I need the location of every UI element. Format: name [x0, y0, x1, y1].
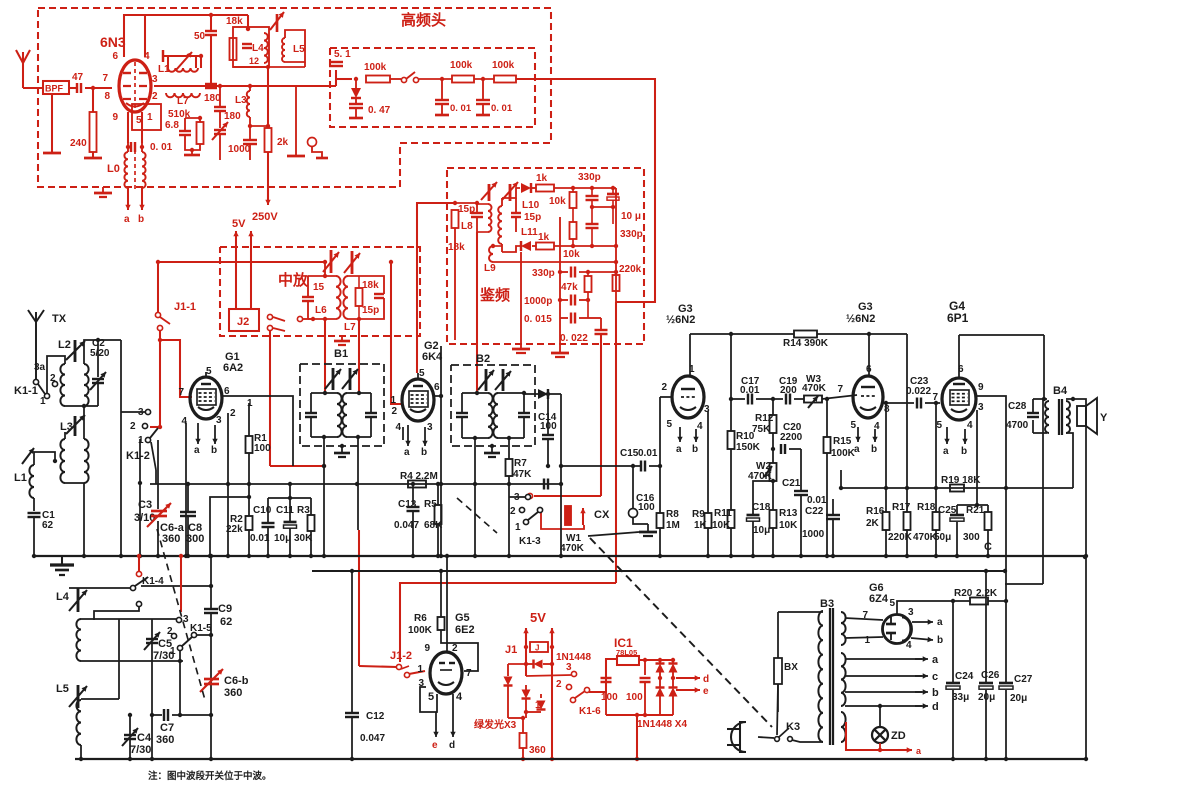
resistor R7 47K	[506, 459, 513, 476]
wire disc to B2	[476, 232, 478, 394]
node 2k top	[267, 67, 269, 126]
wire 360V col	[525, 712, 527, 718]
svg-text:5: 5	[666, 419, 672, 430]
svg-text:K1-1: K1-1	[14, 385, 38, 397]
svg-text:1N1448 X4: 1N1448 X4	[637, 719, 687, 730]
svg-text:C18: C18	[752, 502, 771, 513]
svg-text:100k: 100k	[450, 60, 473, 71]
wire grid mid	[154, 85, 336, 87]
wire AVC line	[150, 483, 561, 485]
wire plate top right	[144, 15, 146, 57]
ground IF	[341, 336, 343, 340]
wire G6 taps	[845, 618, 883, 620]
svg-text:0. 47: 0. 47	[368, 105, 391, 116]
wire det plate	[417, 203, 455, 373]
tube G6 internals	[886, 623, 896, 626]
terminal G1 a	[197, 423, 199, 444]
resistor R10 150K	[728, 431, 735, 449]
svg-text:100: 100	[626, 692, 643, 703]
discriminator dashed box	[447, 168, 644, 344]
svg-text:10μ: 10μ	[274, 533, 291, 544]
svg-text:0. 01: 0. 01	[450, 103, 472, 114]
wire red k15	[180, 556, 182, 612]
resistor R19 18K	[950, 485, 964, 492]
ground cath	[102, 187, 104, 192]
svg-text:6N3: 6N3	[100, 34, 126, 50]
svg-text:C21: C21	[782, 478, 801, 489]
svg-text:BX: BX	[784, 662, 798, 673]
svg-text:180: 180	[224, 111, 241, 122]
ground disc2	[551, 352, 569, 355]
wire J1-1 up	[157, 262, 159, 313]
svg-text:47: 47	[72, 72, 84, 83]
wire heater c	[845, 675, 922, 677]
wire B2R R7	[508, 438, 510, 459]
svg-text:J: J	[535, 644, 539, 653]
wire J1-1 to K12	[150, 426, 160, 428]
svg-text:e: e	[703, 686, 709, 697]
wire to R 240	[92, 88, 94, 112]
wire L3 top	[83, 406, 85, 439]
wire grid coupling	[731, 398, 745, 400]
wire L9 out	[493, 261, 616, 263]
wire antenna to BPF	[23, 87, 43, 89]
tube G4 internals	[950, 390, 969, 405]
wire C9 col	[210, 556, 212, 609]
svg-text:a: a	[124, 214, 130, 225]
wire B+ col 907	[906, 334, 908, 512]
terminal G3a a	[679, 427, 681, 442]
svg-text:C24: C24	[955, 671, 974, 682]
wire L2 bots	[65, 405, 98, 407]
svg-text:TX: TX	[52, 313, 67, 325]
transformer det mid	[498, 206, 502, 244]
block J2	[229, 309, 259, 331]
bus second	[312, 570, 1005, 572]
wire G4 cath	[976, 410, 978, 505]
svg-text:C6-b: C6-b	[224, 675, 249, 687]
wire L4L5 bus	[247, 15, 249, 27]
pin 9 box	[132, 104, 161, 130]
wire L4 top	[81, 618, 119, 620]
wire k13 diag	[457, 498, 497, 533]
switch S afc	[401, 77, 406, 82]
terminal G3b a	[857, 427, 859, 442]
svg-text:62: 62	[220, 616, 232, 628]
svg-text:a: a	[937, 617, 943, 628]
svg-text:5: 5	[206, 366, 212, 377]
resistor R9 1k	[705, 513, 712, 528]
svg-text:0.022: 0.022	[906, 386, 931, 397]
tank B1 right	[370, 393, 372, 412]
wire plug K3	[758, 737, 774, 738]
svg-text:C13: C13	[398, 499, 417, 510]
bus main ground	[33, 555, 1085, 557]
svg-text:100K: 100K	[831, 448, 856, 459]
filter BPF	[43, 81, 69, 94]
wire B2L down	[474, 438, 476, 556]
svg-text:b: b	[871, 444, 877, 455]
wire G3b k	[881, 402, 886, 404]
svg-text:J2: J2	[237, 316, 249, 328]
svg-text:1K: 1K	[694, 520, 708, 531]
node L1 right	[199, 54, 203, 58]
capacitor 6.8	[179, 130, 191, 132]
svg-text:C9: C9	[218, 603, 232, 615]
svg-text:10 μ: 10 μ	[621, 211, 641, 222]
svg-text:b: b	[961, 446, 967, 457]
svg-text:L9: L9	[484, 263, 496, 274]
wire IF B+ rail	[158, 261, 325, 263]
led X3 b	[525, 676, 527, 690]
svg-text:1: 1	[147, 112, 153, 123]
capacitor C1 62	[33, 498, 35, 511]
svg-text:4: 4	[697, 421, 703, 432]
svg-text:2: 2	[452, 643, 458, 654]
capacitor 0.01 a	[441, 79, 443, 99]
svg-text:a: a	[404, 447, 410, 458]
resistor R18 470K	[933, 512, 940, 530]
svg-text:R16: R16	[866, 506, 885, 517]
svg-text:C3: C3	[138, 499, 152, 511]
tank L6	[307, 276, 309, 296]
capacitor C6-b red	[204, 678, 219, 681]
svg-text:C: C	[984, 541, 992, 553]
svg-text:240: 240	[70, 138, 87, 149]
svg-text:4: 4	[906, 640, 912, 651]
wire disc down2	[559, 318, 561, 352]
terminal G2 b	[424, 427, 426, 446]
trimmer B1 b	[349, 368, 352, 390]
svg-text:d: d	[703, 674, 709, 685]
box G5 k	[420, 687, 437, 712]
node 50/L7	[209, 84, 213, 88]
wire B1R down	[357, 437, 359, 530]
wire speaker down	[1085, 426, 1087, 759]
svg-text:100: 100	[638, 502, 655, 513]
svg-text:8: 8	[884, 404, 890, 415]
svg-text:C26: C26	[981, 670, 1000, 681]
terminal 250V	[267, 185, 269, 205]
wire 2k down 250V	[267, 152, 269, 200]
svg-text:360: 360	[529, 745, 546, 756]
wire K12 3	[121, 411, 145, 413]
svg-text:7: 7	[102, 73, 108, 84]
svg-text:½6N2: ½6N2	[846, 313, 875, 325]
svg-text:2: 2	[130, 421, 136, 432]
wire C7 line	[151, 661, 153, 715]
svg-text:330p: 330p	[578, 172, 601, 183]
svg-text:G3: G3	[858, 301, 873, 313]
svg-text:R7: R7	[514, 458, 527, 469]
svg-text:5: 5	[419, 368, 425, 379]
svg-text:R8: R8	[666, 509, 679, 520]
resistor R17 220K	[904, 512, 911, 530]
wire B4 drop	[1043, 335, 1045, 399]
inductor L4r	[264, 33, 268, 63]
terminal e psu	[676, 689, 700, 691]
wire bplus col	[1042, 399, 1044, 584]
svg-text:50: 50	[194, 31, 206, 42]
svg-text:7: 7	[932, 392, 938, 403]
svg-text:L3: L3	[235, 95, 247, 106]
svg-text:4: 4	[395, 422, 401, 433]
wire J1 sides	[525, 628, 527, 676]
svg-text:360: 360	[162, 533, 180, 545]
svg-text:b: b	[138, 214, 144, 225]
resistor R12 75K	[770, 415, 777, 433]
tube V1 6N3	[119, 60, 151, 112]
capacitor C6-a red	[151, 510, 167, 513]
wire G2 p6	[434, 395, 441, 397]
wire mid to AFC	[335, 70, 337, 86]
capacitor 180a	[205, 83, 217, 85]
svg-text:L11: L11	[521, 227, 538, 238]
wire ZD red	[846, 722, 905, 750]
svg-text:1M: 1M	[666, 520, 680, 531]
svg-text:L7: L7	[177, 96, 189, 107]
svg-text:12: 12	[249, 56, 259, 66]
ground C16	[647, 524, 649, 531]
wire 1000 2k	[250, 125, 268, 127]
svg-text:20μ: 20μ	[1010, 693, 1027, 704]
svg-text:50μ: 50μ	[934, 532, 951, 543]
svg-text:R19 18K: R19 18K	[941, 475, 981, 486]
svg-text:1: 1	[138, 435, 144, 446]
wire det bot	[502, 246, 520, 252]
svg-text:K1-3: K1-3	[519, 536, 541, 547]
RF head dashed enclosure	[38, 8, 551, 187]
svg-text:150K: 150K	[736, 442, 761, 453]
svg-text:a: a	[676, 444, 682, 455]
wire col121b	[120, 412, 122, 556]
svg-text:ZD: ZD	[891, 730, 906, 742]
wire G5 top feed	[446, 556, 448, 652]
svg-text:0. 015: 0. 015	[524, 314, 552, 325]
wire B1R red	[358, 530, 360, 666]
wire det out col	[615, 302, 617, 583]
wire osc right	[267, 60, 269, 67]
svg-text:L0: L0	[107, 163, 120, 175]
wire cathode right	[141, 112, 143, 143]
terminal G6 a	[912, 621, 933, 623]
svg-text:5. 1: 5. 1	[334, 49, 351, 60]
wire L6 bot down	[324, 319, 326, 393]
wire J2 to L6	[303, 318, 313, 320]
wire psu to gnd	[636, 715, 638, 759]
resistor 2k	[265, 128, 272, 152]
resistor 10k b	[570, 222, 577, 239]
inductor L1	[168, 68, 198, 72]
wire C10 trio top	[289, 484, 291, 498]
wire heater b	[845, 691, 922, 693]
svg-text:3: 3	[216, 415, 222, 426]
resistor R2 22k	[246, 516, 253, 530]
svg-text:100K: 100K	[408, 625, 433, 636]
wire J2 down	[269, 330, 271, 466]
svg-text:4: 4	[967, 420, 973, 431]
switch J2 contacts	[267, 314, 272, 319]
svg-text:6.8: 6.8	[165, 120, 179, 131]
svg-text:d: d	[932, 701, 939, 713]
ground right col	[295, 130, 297, 155]
tank L7t	[343, 276, 348, 319]
svg-text:0.01: 0.01	[807, 495, 827, 506]
wire det cross	[592, 206, 613, 208]
lamp ZD	[879, 706, 881, 727]
svg-text:C22: C22	[805, 506, 824, 517]
wire det node col	[615, 188, 617, 302]
bus bottom	[75, 758, 1086, 760]
svg-text:C10: C10	[253, 505, 272, 516]
svg-text:470K: 470K	[560, 543, 585, 554]
wire W1 wiper	[541, 512, 584, 529]
svg-text:L8: L8	[461, 221, 473, 232]
svg-text:5V: 5V	[530, 610, 546, 625]
svg-text:3: 3	[427, 422, 433, 433]
svg-text:R21: R21	[966, 505, 985, 516]
capacitor 100 b	[644, 660, 646, 675]
wire L5 right down	[304, 62, 306, 67]
wire B3 prim top	[778, 611, 823, 613]
wire psu d2 diag	[590, 538, 772, 727]
wire L3 top	[249, 86, 251, 91]
svg-text:2: 2	[556, 679, 562, 690]
wire cap to tube	[85, 87, 112, 89]
tube 6N3 internals	[134, 62, 136, 112]
IF amp dashed box	[220, 247, 420, 336]
capacitor 5.1	[329, 61, 343, 63]
svg-text:7: 7	[466, 668, 472, 679]
svg-text:7: 7	[837, 384, 843, 395]
wire R6 loop	[441, 630, 478, 671]
terminal G1 b	[214, 425, 216, 444]
svg-text:220k: 220k	[619, 264, 642, 275]
svg-text:R9: R9	[692, 509, 705, 520]
antenna ANT1	[22, 63, 24, 88]
svg-text:9: 9	[112, 112, 118, 123]
svg-text:10μ: 10μ	[753, 525, 770, 536]
capacitor 50	[205, 30, 217, 32]
svg-text:G5: G5	[455, 612, 470, 624]
svg-text:½6N2: ½6N2	[666, 314, 695, 326]
wire C2 col	[120, 340, 122, 412]
svg-text:5: 5	[428, 691, 434, 703]
svg-text:5: 5	[889, 598, 895, 609]
wire K15 common	[196, 634, 211, 636]
svg-text:0.047: 0.047	[394, 520, 419, 531]
svg-text:5/20: 5/20	[90, 348, 110, 359]
resistor R14 390K	[794, 331, 817, 338]
svg-text:3a: 3a	[34, 362, 46, 373]
svg-text:C15: C15	[620, 448, 639, 459]
wire L3 bot	[249, 117, 251, 139]
svg-text:J1-1: J1-1	[174, 301, 196, 313]
node grid junction	[91, 86, 95, 90]
svg-text:62: 62	[42, 520, 54, 531]
wire K13 col	[508, 484, 510, 556]
svg-text:3: 3	[908, 607, 914, 618]
svg-text:15: 15	[313, 282, 325, 293]
wire B4 prim bot	[1044, 433, 1049, 556]
svg-text:6P1: 6P1	[947, 311, 969, 325]
svg-text:K1-5: K1-5	[190, 623, 212, 634]
wire G3a p2 col	[659, 397, 661, 513]
svg-text:Y: Y	[1100, 412, 1108, 424]
svg-text:15p: 15p	[524, 212, 541, 223]
svg-text:100: 100	[601, 692, 618, 703]
svg-text:L5: L5	[293, 44, 305, 55]
svg-text:C4: C4	[137, 732, 152, 744]
svg-text:K3: K3	[786, 721, 800, 733]
svg-text:33μ: 33μ	[952, 692, 969, 703]
inductor L5r	[282, 38, 285, 62]
svg-text:18k: 18k	[362, 280, 379, 291]
diode D afc	[351, 88, 361, 98]
capacitor 330p b	[586, 223, 599, 225]
wire C6a down	[157, 521, 159, 556]
svg-text:2: 2	[230, 408, 236, 419]
svg-text:75K: 75K	[752, 424, 771, 435]
svg-text:a: a	[194, 445, 200, 456]
trimmer B2 b	[502, 369, 505, 391]
svg-text:0. 01: 0. 01	[150, 142, 173, 153]
wire K14 lower	[94, 606, 139, 620]
terminal G6 b	[911, 638, 933, 640]
svg-text:3: 3	[566, 662, 572, 673]
svg-text:L5: L5	[56, 683, 69, 695]
wire right col	[295, 86, 297, 130]
wire G1 p6	[222, 396, 293, 466]
svg-text:1000p: 1000p	[524, 296, 552, 307]
capacitor L8tank	[476, 203, 478, 212]
wire L7 bot down	[358, 319, 360, 393]
svg-text:b: b	[211, 445, 217, 456]
wire BPF out	[69, 87, 76, 89]
svg-text:1: 1	[170, 646, 176, 657]
svg-text:100: 100	[254, 443, 271, 454]
wire B4 sec bot	[1066, 433, 1073, 488]
wire AFC top	[336, 78, 352, 80]
wire 50 drop	[210, 15, 212, 30]
tube G3b internals	[861, 386, 875, 388]
resistor 18k top	[230, 38, 237, 60]
antenna TX	[35, 322, 37, 382]
resistor R13 10K	[770, 510, 777, 528]
tank L1 loop	[163, 55, 201, 57]
svg-text:J1-2: J1-2	[390, 650, 412, 662]
svg-text:1: 1	[515, 522, 521, 533]
svg-text:1: 1	[390, 395, 396, 406]
tube G3a internals	[681, 388, 695, 390]
svg-text:2: 2	[391, 406, 397, 417]
svg-text:5: 5	[936, 420, 942, 431]
svg-text:1: 1	[247, 398, 253, 409]
wire C20 C21	[789, 448, 801, 450]
svg-text:1k: 1k	[538, 232, 550, 243]
capacitor L4	[242, 43, 252, 45]
wire det to J1-2	[400, 583, 616, 662]
bridge 1N1448 X4	[659, 660, 661, 664]
svg-text:2200: 2200	[780, 432, 803, 443]
resistor 1k a	[532, 187, 536, 189]
wire L8 col	[454, 228, 456, 340]
terminal G4 b	[964, 429, 966, 444]
svg-text:c: c	[932, 671, 938, 683]
wire K13 up	[534, 495, 601, 497]
svg-text:360: 360	[156, 734, 174, 746]
speaker Y	[1077, 406, 1086, 426]
